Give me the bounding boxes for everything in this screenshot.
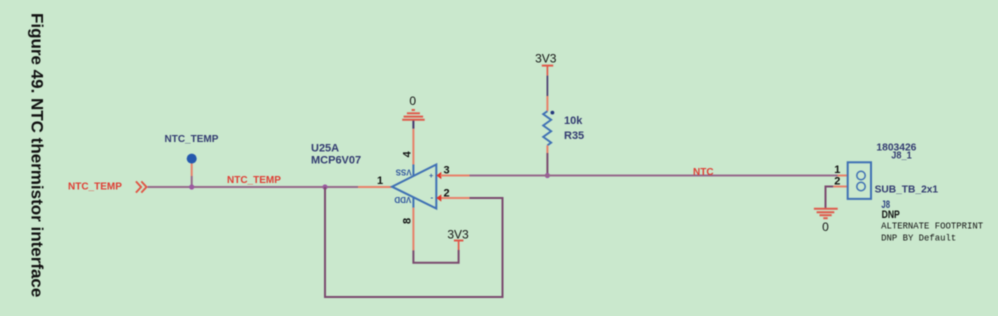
svg-text:2: 2 — [834, 175, 840, 187]
resistor R35 pin-1 dot — [551, 111, 555, 115]
svg-text:NTC_TEMP: NTC_TEMP — [227, 175, 281, 186]
svg-text:10k: 10k — [564, 115, 583, 127]
wire: NTC_TEMP main horizontal — [148, 186, 392, 188]
wire: pin1 stub (salmon) — [358, 186, 392, 188]
op-amp U25A triangle — [392, 165, 436, 209]
svg-text:ALTERNATE FOOTPRINT: ALTERNATE FOOTPRINT — [881, 221, 984, 231]
svg-text:DNP: DNP — [882, 209, 900, 221]
svg-text:SUB_TB_2x1: SUB_TB_2x1 — [875, 183, 939, 195]
testpoint NTC_TEMP (blue dot) — [187, 154, 197, 164]
svg-text:VDD: VDD — [394, 195, 411, 204]
ground 0 (top, inverted) — [402, 110, 425, 120]
wire: pin3 stub (salmon) — [441, 175, 470, 177]
off-page connector NTC_TEMP — [136, 181, 147, 192]
wire: NTC net — [470, 175, 838, 177]
svg-text:Figure 49. NTC thermistor inte: Figure 49. NTC thermistor interface — [28, 13, 47, 297]
svg-text:R35: R35 — [564, 130, 584, 142]
wire: pin4 to ground — [412, 129, 414, 165]
wire: pin8 down — [412, 197, 414, 207]
junction node NTC — [545, 173, 550, 178]
connector J8 pin-1 circle — [857, 171, 865, 179]
svg-text:U25A: U25A — [311, 143, 339, 155]
svg-text:VSS: VSS — [395, 167, 412, 176]
svg-text:NTC_TEMP: NTC_TEMP — [165, 134, 219, 145]
svg-text:NTC_TEMP: NTC_TEMP — [68, 181, 122, 192]
ground 0 (connector) — [814, 209, 838, 218]
svg-text:3V3: 3V3 — [535, 52, 557, 66]
svg-text:2: 2 — [444, 188, 450, 200]
resistor R35 — [543, 111, 551, 145]
svg-text:0: 0 — [822, 220, 829, 234]
svg-text:8: 8 — [402, 218, 414, 224]
junction at testpoint — [189, 184, 194, 189]
svg-text:NTC: NTC — [693, 167, 714, 178]
wire: testpoint stub — [191, 164, 193, 177]
svg-text:4: 4 — [402, 150, 414, 157]
connector J8 pin-2 circle — [857, 182, 865, 190]
wire: feedback loop — [325, 187, 503, 297]
wire: 3V3 to resistor — [546, 76, 548, 96]
wire: pin2 stub (salmon) — [441, 197, 470, 199]
svg-text:J8_1: J8_1 — [891, 149, 912, 161]
svg-text:-: - — [430, 193, 433, 202]
wire: resistor to node — [546, 145, 548, 153]
svg-text:1: 1 — [377, 175, 383, 187]
svg-text:0: 0 — [409, 94, 416, 108]
svg-text:MCP6V07: MCP6V07 — [311, 155, 361, 167]
connector J8 pin stubs — [838, 175, 848, 177]
pin arrow pin3 — [436, 172, 441, 179]
svg-text:3V3: 3V3 — [447, 227, 469, 241]
pin arrow pin2 — [436, 194, 441, 201]
svg-text:1: 1 — [834, 164, 840, 176]
power 3V3 (bottom) — [458, 241, 460, 251]
connector J8 body — [848, 162, 871, 199]
junction node feedback — [322, 184, 327, 189]
svg-text:+: + — [429, 171, 434, 180]
svg-text:DNP BY Default: DNP BY Default — [881, 233, 956, 243]
wire: pin2 to ground — [826, 187, 834, 209]
